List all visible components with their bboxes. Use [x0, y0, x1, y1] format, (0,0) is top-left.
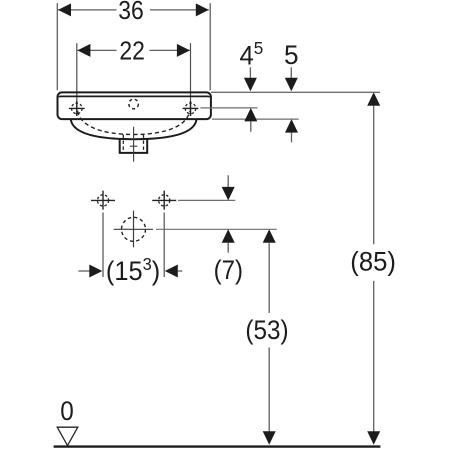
dim 5: label	[284, 39, 299, 69]
left supply dashed circle	[97, 195, 108, 206]
reference line rim bottom level (line C)	[212, 118, 299, 120]
left supply crosshair horizontal	[91, 199, 115, 201]
right tap hole dashed circle	[185, 103, 196, 114]
drain centerline horizontal dash	[130, 145, 138, 147]
dim 7: down arrow stem	[227, 175, 229, 187]
dim 4.5: up arrow stem	[250, 121, 252, 131]
dim 7: label	[214, 256, 243, 286]
reference line rim top extended (line A)	[211, 91, 380, 93]
dim 53: down arrowhead at floor	[263, 431, 276, 445]
datum triangle	[57, 427, 78, 445]
drain dashed inner wall left	[122, 135, 124, 154]
left tap hole dashed circle	[72, 103, 83, 114]
dim 15.3: label	[106, 255, 160, 286]
dimension 22: left extension / tap centerline	[76, 43, 78, 116]
dim 15.3: left arrow stem	[78, 270, 89, 272]
dim 4.5: down arrow stem	[249, 67, 251, 79]
svg-text:36: 36	[118, 0, 144, 25]
right tap hole crosshair horizontal	[183, 107, 199, 109]
right tap hole crosshair vertical	[190, 101, 192, 116]
dim 15.3: right arrowhead	[165, 265, 178, 278]
dim 7: up arrowhead	[222, 229, 235, 243]
dimension 22: dimension line left segment	[77, 49, 116, 51]
waste vertical centerline	[133, 211, 135, 248]
right supply dashed circle	[159, 195, 170, 206]
drain dashed inner wall right	[143, 135, 145, 154]
waste crosshair horizontal	[114, 228, 153, 230]
dimension 36: label	[118, 0, 144, 25]
basin bowl outer outline	[71, 120, 197, 140]
svg-text:(153): (153)	[106, 255, 160, 286]
drain vertical centerline	[133, 127, 135, 162]
supply level reference line	[178, 199, 235, 201]
left supply extension line down	[102, 213, 104, 278]
dimension 36: dimension line left segment	[58, 9, 117, 11]
svg-text:22: 22	[119, 38, 145, 66]
dimension 36: left arrowhead	[58, 3, 71, 16]
left tap hole crosshair horizontal	[69, 107, 85, 109]
dim 4.5: up arrowhead at tap line	[244, 108, 257, 122]
overflow dashed circle	[129, 99, 139, 109]
dimension 22: right arrowhead	[177, 44, 190, 57]
left supply crosshair vertical	[102, 191, 104, 210]
washbasin rim outline	[58, 92, 211, 119]
right supply crosshair horizontal	[152, 199, 176, 201]
dim 15.3: right arrow stem	[178, 270, 183, 272]
washbasin rim inner edge line	[59, 96, 209, 97]
right supply crosshair vertical	[163, 191, 165, 210]
svg-text:(85): (85)	[350, 246, 396, 277]
dim 53: upper stem	[268, 243, 270, 313]
dimension 36: dimension line right segment	[150, 9, 209, 11]
floor line	[54, 445, 381, 447]
dimension 22: label	[119, 38, 145, 66]
dim 5: down arrow stem	[290, 67, 292, 79]
dimension 36: right extension line	[209, 3, 211, 90]
svg-text:(7): (7)	[214, 256, 243, 286]
left tap hole crosshair vertical	[76, 101, 78, 116]
dim 7: up arrow stem	[227, 243, 229, 253]
dimension 36: left extension line	[56, 3, 58, 90]
dim 85: label	[350, 246, 396, 277]
svg-text:(53): (53)	[245, 316, 288, 345]
dim 53: up arrowhead at waste line	[263, 229, 276, 243]
dim 5: down arrowhead	[285, 78, 298, 92]
waste level reference line	[156, 228, 277, 230]
dimension 22: dimension line right segment	[150, 49, 190, 51]
dim 53: label	[245, 316, 288, 345]
svg-text:0: 0	[60, 397, 74, 426]
dim 85: upper stem	[373, 106, 375, 244]
datum 0 label	[60, 397, 74, 426]
dim 85: lower stem	[373, 281, 375, 432]
dim 85: down arrowhead at floor	[367, 431, 380, 445]
dimension 22: right extension / tap centerline	[190, 43, 192, 116]
right supply extension line down	[163, 213, 165, 278]
basin inner dashed outline	[78, 111, 190, 135]
waste connection dashed circle	[122, 217, 146, 241]
dim 85: up arrowhead at rim top line	[367, 92, 380, 106]
drain trap box	[120, 139, 148, 153]
dim 15.3: left arrowhead	[89, 265, 102, 278]
dim 4.5: label	[240, 38, 264, 71]
dim 53: lower stem	[268, 348, 270, 432]
dim 5: up arrow stem	[291, 133, 293, 143]
dim 7: down arrowhead	[222, 187, 235, 201]
dim 5: up arrowhead at rim bottom line	[285, 119, 298, 133]
dimension 36: right arrowhead	[196, 3, 209, 16]
dim 4.5: down arrowhead	[244, 78, 257, 92]
reference line tap hole level (line B)	[200, 107, 257, 109]
dimension 22: left arrowhead	[77, 44, 90, 57]
svg-text:5: 5	[284, 39, 299, 69]
